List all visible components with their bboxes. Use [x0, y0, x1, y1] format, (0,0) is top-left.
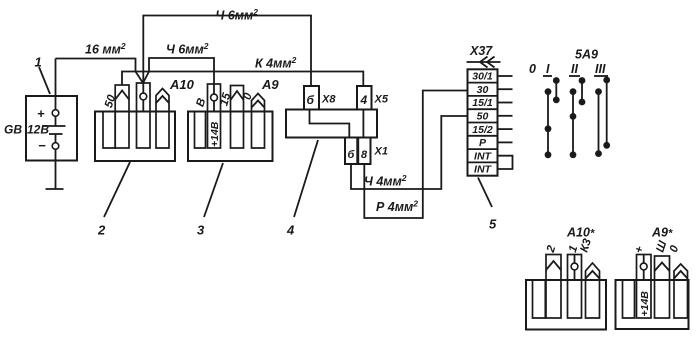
monoblock divider	[362, 110, 364, 138]
svg-text:Р: Р	[479, 137, 487, 149]
svg-text:2: 2	[97, 223, 106, 238]
X37 INT-INT loop	[498, 156, 513, 169]
svg-text:А9*: А9*	[651, 226, 673, 240]
X37 box	[468, 69, 498, 175]
switch I bar long	[545, 88, 552, 158]
A10 pin 50 chevron	[115, 91, 129, 100]
svg-text:Ч 6мм2: Ч 6мм2	[216, 7, 259, 23]
A10 pin 2 (circle pin)	[137, 83, 151, 148]
monoblock body	[286, 110, 377, 138]
X37 row separators	[468, 83, 498, 163]
leader 2	[104, 162, 130, 217]
battery GB box	[26, 96, 77, 161]
svg-text:III: III	[595, 62, 606, 76]
svg-text:Х37: Х37	[469, 44, 493, 58]
A9* pin Sh chevron	[655, 263, 670, 272]
A9 pin 15 chevron	[231, 91, 244, 100]
X37 arrow	[467, 57, 501, 68]
connector block A10 body	[95, 112, 175, 162]
svg-text:8: 8	[361, 149, 368, 161]
A10* pin 2	[546, 255, 561, 319]
svg-text:30: 30	[477, 84, 489, 96]
A10* pin 1 stubs	[574, 255, 576, 264]
svg-text:16 мм2: 16 мм2	[85, 41, 126, 57]
A9 pin V (circle pin)	[208, 84, 221, 148]
wire black 4mm2	[351, 116, 468, 189]
switch III bar right	[603, 77, 610, 149]
A9* pin plus stubs	[643, 255, 645, 264]
svg-text:К 4мм2: К 4мм2	[255, 55, 297, 71]
A9* pentagon pin 0	[674, 264, 688, 318]
svg-text:GB: GB	[4, 123, 22, 137]
A9* pentagon pin chevron	[674, 271, 688, 279]
svg-text:4: 4	[286, 223, 295, 238]
A10* pin 1 contact circle	[571, 263, 578, 270]
svg-text:Х1: Х1	[374, 146, 388, 158]
A9 empty slot	[195, 112, 206, 149]
A9 pentagon pin chevron	[252, 101, 265, 108]
svg-text:30/1: 30/1	[472, 71, 493, 83]
switch position III label	[594, 62, 608, 76]
battery minus terminal	[52, 143, 59, 150]
wire black 6mm2 to A9	[143, 58, 214, 94]
X37 pin stubs	[498, 76, 513, 142]
svg-text:12В: 12В	[27, 123, 49, 137]
svg-text:50: 50	[477, 111, 489, 123]
svg-text:А10: А10	[169, 77, 195, 92]
connector X1 pin b	[345, 138, 357, 165]
leader 4	[294, 140, 318, 217]
battery cell long plate	[43, 125, 66, 127]
A9* pin Sh	[655, 256, 670, 318]
svg-text:+14В: +14В	[639, 291, 651, 317]
A10* empty slot	[533, 280, 546, 318]
A10* pentagon pin K3	[586, 263, 600, 318]
switch position II label	[569, 62, 580, 76]
svg-text:3: 3	[197, 223, 205, 238]
svg-text:I: I	[546, 62, 550, 76]
svg-text:II: II	[571, 62, 578, 76]
svg-text:1: 1	[35, 55, 42, 70]
A10 pin 2 contact circle	[140, 93, 147, 100]
monoblock inner step	[310, 110, 350, 138]
connector X1 pin 8	[358, 138, 370, 165]
leader 3	[204, 163, 223, 217]
connector block A9 body	[188, 112, 273, 162]
switch position I label	[543, 62, 552, 76]
svg-text:Х5: Х5	[374, 94, 389, 106]
switch III bar long	[595, 88, 602, 157]
wire black 6mm2 top	[143, 16, 311, 94]
battery plus terminal	[52, 110, 59, 117]
svg-text:Ч 6мм2: Ч 6мм2	[166, 41, 209, 57]
wire battery vertical upper	[55, 59, 57, 127]
svg-text:5: 5	[489, 217, 497, 232]
connector X5 pin 4	[357, 86, 372, 110]
svg-text:+14В: +14В	[209, 121, 221, 147]
wire battery vertical lower to ground	[55, 134, 57, 189]
connector block A9* body	[616, 280, 689, 329]
svg-text:б: б	[348, 149, 356, 161]
svg-text:4: 4	[360, 93, 368, 107]
svg-text:0: 0	[529, 62, 536, 76]
svg-text:15/1: 15/1	[472, 97, 493, 109]
svg-text:INT: INT	[474, 150, 493, 162]
leader 5	[478, 178, 492, 208]
A9 pin V contact circle	[211, 94, 218, 101]
A10 pin 2 stub below circle	[142, 100, 144, 112]
connector X8 pin b	[304, 86, 319, 110]
A10 pin 50	[115, 85, 129, 148]
A10* pin 1 (circle pin)	[568, 255, 582, 319]
A10* pentagon pin chevron	[586, 271, 600, 279]
switch I bar short	[553, 77, 560, 103]
svg-text:−: −	[38, 138, 46, 153]
A9 pin V stub below circle	[213, 101, 215, 112]
svg-text:А10*: А10*	[566, 226, 595, 240]
connector block A10* body	[526, 280, 606, 330]
svg-text:А9: А9	[261, 77, 279, 92]
switch II bar short	[579, 77, 586, 105]
ground	[46, 188, 64, 190]
A10 pentagon pin chevron	[156, 96, 169, 103]
A9 pin 15	[231, 86, 244, 149]
svg-text:+: +	[37, 106, 45, 121]
battery cell short plate	[49, 133, 63, 135]
svg-text:б: б	[307, 93, 315, 107]
svg-text:5А9: 5А9	[575, 48, 598, 62]
X37 row labels	[472, 71, 493, 176]
svg-text:15/2: 15/2	[472, 124, 493, 136]
wire 16mm2	[56, 59, 144, 84]
svg-text:Ч 4мм2: Ч 4мм2	[364, 173, 407, 189]
A9* pin plus contact circle	[640, 263, 647, 270]
A9 pentagon pin 0	[252, 94, 265, 149]
wire R 4mm2	[364, 91, 467, 219]
A9* pin plus (circle pin)	[637, 255, 652, 319]
svg-text:Р 4мм2: Р 4мм2	[376, 199, 418, 215]
switch II bar long	[570, 88, 577, 158]
wire K 4mm2	[122, 72, 363, 87]
svg-text:Х8: Х8	[321, 94, 336, 106]
leader 1	[39, 67, 50, 94]
A10 pentagon pin	[156, 89, 169, 149]
A10 empty slot	[103, 112, 115, 149]
svg-text:INT: INT	[474, 164, 493, 176]
A9* empty slot	[623, 280, 635, 318]
A10* pin 2 chevron	[546, 261, 561, 270]
